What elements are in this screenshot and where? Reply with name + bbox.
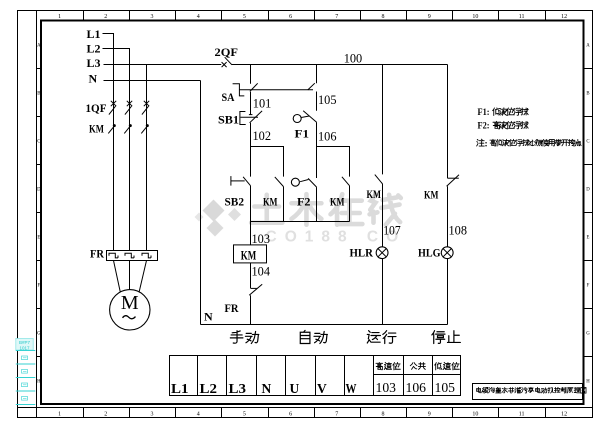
svg-text:F: F	[37, 284, 40, 289]
svg-text:106: 106	[318, 128, 337, 143]
wire rail 100	[232, 64, 448, 66]
node L3	[87, 56, 222, 70]
svg-text:9: 9	[428, 411, 431, 417]
svg-text:106: 106	[406, 381, 427, 396]
node 104	[251, 263, 271, 288]
watermark text url	[266, 229, 407, 246]
label auto	[300, 330, 327, 343]
wire N rail	[201, 324, 448, 326]
svg-text:105: 105	[435, 381, 456, 396]
svg-text:3: 3	[151, 411, 154, 417]
indicator lamp HLG	[418, 246, 453, 325]
svg-text:SB2: SB2	[225, 195, 245, 209]
svg-text:7: 7	[335, 14, 338, 20]
wire split manual	[251, 147, 284, 177]
svg-text:11: 11	[519, 411, 525, 417]
svg-text:D: D	[586, 188, 590, 193]
selector SA auto contact	[308, 83, 315, 90]
svg-text:11: 11	[519, 14, 525, 20]
terminal labels	[171, 381, 357, 396]
svg-text:4: 4	[197, 14, 200, 20]
svg-text:L2: L2	[200, 381, 218, 396]
svg-text:L3: L3	[87, 56, 101, 70]
node L1	[87, 27, 114, 48]
contactor contact KM stop NC	[424, 175, 459, 247]
svg-text:F1:: F1:	[478, 108, 490, 118]
wire stop lamp branch	[447, 65, 449, 179]
float switch F1	[293, 111, 316, 141]
svg-text:2: 2	[104, 411, 107, 417]
wire phase A	[113, 34, 115, 251]
label manual	[230, 331, 258, 344]
svg-text:1: 1	[58, 14, 61, 20]
watermark logo	[195, 200, 242, 237]
svg-text:KM: KM	[424, 187, 439, 201]
svg-text:B#P7: B#P7	[19, 340, 31, 345]
svg-text:SB1: SB1	[218, 113, 239, 127]
float switch F2	[291, 147, 316, 222]
contactor contact KM auto	[330, 177, 350, 222]
svg-text:103: 103	[252, 231, 271, 246]
svg-text:H: H	[37, 380, 41, 385]
svg-text:6: 6	[289, 14, 292, 20]
label stop	[432, 331, 460, 344]
svg-text:A: A	[37, 44, 41, 49]
node 106 terminal	[406, 381, 427, 396]
svg-text:101: 101	[253, 95, 271, 110]
svg-text::: :	[485, 139, 488, 149]
motor M	[110, 261, 150, 330]
note F1	[478, 108, 529, 118]
svg-text:KM: KM	[89, 122, 104, 136]
svg-text:N: N	[89, 72, 98, 86]
svg-text:L2: L2	[87, 42, 101, 56]
wire run lamp branch	[382, 65, 384, 175]
note F2	[478, 121, 529, 131]
thermal relay FR heaters	[90, 247, 158, 261]
svg-text:N: N	[204, 310, 213, 324]
svg-text:4: 4	[197, 411, 200, 417]
terminal table	[170, 356, 461, 396]
node 105 terminal	[435, 381, 456, 396]
svg-text:102: 102	[253, 128, 272, 143]
svg-text:107: 107	[383, 223, 401, 238]
svg-text:12: 12	[561, 411, 567, 417]
label run	[367, 331, 396, 344]
node 100	[344, 50, 363, 65]
selector switch SA	[222, 83, 314, 104]
svg-text:HLG: HLG	[418, 246, 441, 260]
svg-text:L3: L3	[229, 381, 247, 396]
svg-text:1017: 1017	[19, 345, 30, 350]
svg-text:104: 104	[252, 264, 271, 279]
node 107	[383, 223, 401, 238]
svg-text:B: B	[586, 92, 589, 97]
svg-text:HLR: HLR	[350, 246, 374, 260]
svg-text:D: D	[37, 188, 41, 193]
wire SB2 down	[250, 186, 252, 245]
contactor coil KM	[234, 245, 267, 263]
svg-text:V: V	[317, 381, 327, 396]
svg-text:L1: L1	[87, 27, 101, 41]
wire N drop	[200, 81, 202, 325]
svg-text:U: U	[290, 381, 300, 396]
node 103 terminal	[376, 381, 397, 396]
svg-text:F: F	[587, 284, 590, 289]
svg-text:12: 12	[561, 14, 567, 20]
thermal relay contact FR	[225, 284, 263, 324]
svg-text:C: C	[37, 140, 40, 145]
svg-text:G: G	[586, 332, 590, 337]
wire split auto	[317, 147, 350, 177]
terminal header low speed	[435, 362, 460, 369]
svg-text:E: E	[37, 236, 40, 241]
wire manual down	[250, 147, 252, 177]
note usage	[477, 139, 581, 149]
watermark text brand	[251, 194, 401, 225]
svg-text:9: 9	[428, 14, 431, 20]
svg-text:5: 5	[243, 411, 246, 417]
svg-text:F2:: F2:	[478, 122, 490, 132]
svg-text:B: B	[37, 92, 40, 97]
svg-text:KM: KM	[367, 187, 382, 201]
svg-text:8: 8	[382, 14, 385, 20]
svg-text:2: 2	[104, 14, 107, 20]
svg-text:KM: KM	[241, 249, 257, 263]
svg-text:2QF: 2QF	[215, 45, 239, 59]
svg-text:FR: FR	[90, 247, 104, 261]
svg-text:SA: SA	[222, 90, 235, 104]
svg-text:E: E	[587, 236, 590, 241]
svg-text:H: H	[586, 380, 590, 385]
svg-text:3: 3	[151, 14, 154, 20]
svg-text:KM: KM	[330, 195, 345, 209]
wire join bus	[251, 221, 350, 223]
terminal header high speed	[376, 362, 400, 369]
svg-text:FR: FR	[225, 301, 239, 315]
svg-text:KM: KM	[263, 195, 278, 209]
svg-text:8: 8	[382, 411, 385, 417]
svg-text:W: W	[346, 381, 357, 396]
contactor contact KM run	[367, 175, 383, 247]
svg-text:1: 1	[58, 411, 61, 417]
node 108	[449, 223, 468, 238]
svg-text:100: 100	[344, 50, 363, 65]
node 105	[317, 92, 337, 111]
svg-text:103: 103	[376, 381, 397, 396]
svg-text:1QF: 1QF	[86, 101, 107, 115]
node N	[89, 72, 201, 86]
svg-text:M: M	[121, 292, 139, 314]
svg-text:108: 108	[449, 223, 468, 238]
svg-text:C: C	[586, 140, 589, 145]
indicator lamp HLR	[350, 246, 389, 325]
svg-text:F2: F2	[297, 195, 311, 209]
node L2	[87, 42, 130, 62]
wire phase B	[129, 49, 131, 251]
svg-text:G: G	[37, 332, 41, 337]
node 101	[249, 92, 271, 115]
svg-text:10: 10	[472, 411, 478, 417]
svg-text:5: 5	[243, 14, 246, 20]
title block	[473, 384, 587, 400]
contactor contact KM latch	[263, 177, 284, 222]
circuit breaker 1QF	[86, 101, 150, 115]
svg-text:F1: F1	[295, 126, 310, 140]
revision stamp (cyan)	[16, 339, 36, 405]
contactor KM main contacts	[89, 122, 149, 136]
node 103	[252, 231, 271, 246]
terminal header common	[410, 363, 425, 370]
node N bottom	[204, 310, 213, 324]
pushbutton SB2	[225, 176, 251, 209]
wire branch auto	[316, 65, 318, 84]
svg-text:L1: L1	[171, 381, 189, 396]
svg-text:10: 10	[472, 14, 478, 20]
wire phase C	[146, 65, 148, 251]
svg-text:A: A	[586, 44, 590, 49]
node 106	[317, 122, 337, 146]
svg-text:N: N	[262, 381, 272, 396]
svg-text:7: 7	[335, 411, 338, 417]
wire branch manual	[250, 65, 252, 84]
circuit breaker 2QF	[215, 45, 239, 67]
svg-text:105: 105	[318, 92, 337, 107]
svg-text:6: 6	[289, 411, 292, 417]
node 102	[251, 123, 272, 147]
pushbutton SB1	[218, 111, 262, 127]
